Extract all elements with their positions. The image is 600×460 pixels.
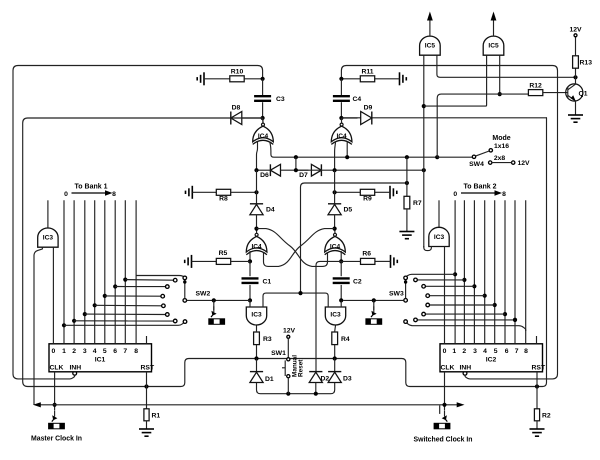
svg-text:Mode: Mode [492,135,510,142]
svg-text:CLK: CLK [441,364,455,371]
svg-text:5: 5 [103,348,107,355]
svg-text:D1: D1 [265,376,274,383]
svg-text:1x16: 1x16 [494,143,509,150]
svg-text:IC3: IC3 [43,235,54,242]
svg-text:8: 8 [502,191,506,198]
svg-text:R11: R11 [361,69,373,76]
svg-text:0: 0 [64,191,68,198]
svg-text:D6: D6 [260,172,269,179]
svg-text:12V: 12V [283,328,296,335]
svg-text:3: 3 [473,348,477,355]
svg-text:R1: R1 [152,413,161,420]
svg-text:C1: C1 [263,278,272,285]
svg-text:IC2: IC2 [486,356,497,363]
svg-text:1: 1 [452,348,456,355]
svg-text:R3: R3 [263,336,272,343]
svg-text:8: 8 [112,191,116,198]
svg-text:R2: R2 [542,413,551,420]
svg-text:INH: INH [70,364,82,371]
svg-text:C3: C3 [276,96,285,103]
svg-text:SW3: SW3 [389,290,404,297]
svg-text:0: 0 [443,348,447,355]
svg-text:4: 4 [483,348,487,355]
svg-text:IC3: IC3 [251,312,262,319]
svg-text:R5: R5 [219,250,228,257]
svg-text:D7: D7 [299,172,308,179]
svg-text:IC3: IC3 [330,312,341,319]
svg-text:R10: R10 [231,69,244,76]
svg-text:R7: R7 [413,200,422,207]
svg-text:R6: R6 [362,251,371,258]
svg-text:IC4: IC4 [258,133,269,140]
svg-text:D2: D2 [321,376,330,383]
svg-text:D9: D9 [364,105,373,112]
svg-text:2x8: 2x8 [494,155,506,162]
svg-text:2: 2 [72,348,76,355]
svg-text:R13: R13 [580,60,593,67]
svg-text:CLK: CLK [50,364,64,371]
svg-text:12V: 12V [518,160,531,167]
svg-text:Switched Clock In: Switched Clock In [414,436,473,443]
svg-text:8: 8 [134,348,138,355]
svg-text:R8: R8 [219,196,228,203]
svg-text:Master Clock In: Master Clock In [31,435,82,442]
svg-text:C4: C4 [353,96,362,103]
svg-text:8: 8 [524,348,528,355]
svg-text:6: 6 [113,348,117,355]
svg-text:IC5: IC5 [488,43,499,50]
svg-text:R4: R4 [341,336,350,343]
svg-text:SW1: SW1 [271,350,286,357]
svg-text:To Bank 2: To Bank 2 [464,183,497,190]
svg-text:D8: D8 [232,105,241,112]
svg-text:7: 7 [123,348,127,355]
svg-text:RST: RST [141,364,155,371]
svg-text:IC5: IC5 [425,43,436,50]
svg-text:SW4: SW4 [469,161,484,168]
svg-text:3: 3 [83,348,87,355]
svg-text:R9: R9 [363,196,372,203]
svg-text:IC4: IC4 [330,243,341,250]
svg-text:INH: INH [460,364,472,371]
svg-text:RST: RST [532,364,546,371]
svg-text:IC4: IC4 [336,133,347,140]
svg-text:R12: R12 [529,83,542,90]
svg-text:12V: 12V [569,27,582,34]
svg-text:To Bank 1: To Bank 1 [75,183,108,190]
svg-text:D4: D4 [266,207,275,214]
svg-text:6: 6 [505,348,509,355]
svg-text:IC1: IC1 [95,356,106,363]
svg-text:5: 5 [494,348,498,355]
svg-text:Q1: Q1 [579,91,588,98]
svg-text:7: 7 [515,348,519,355]
svg-text:1: 1 [62,348,66,355]
svg-text:0: 0 [52,348,56,355]
svg-text:IC3: IC3 [434,234,445,241]
svg-text:4: 4 [93,348,97,355]
svg-text:D3: D3 [343,376,352,383]
svg-text:IC4: IC4 [251,243,262,250]
svg-text:2: 2 [462,348,466,355]
svg-text:Reset: Reset [298,359,305,377]
svg-text:SW2: SW2 [196,290,211,297]
svg-text:0: 0 [453,191,457,198]
svg-text:D5: D5 [344,207,353,214]
svg-text:C2: C2 [353,278,362,285]
